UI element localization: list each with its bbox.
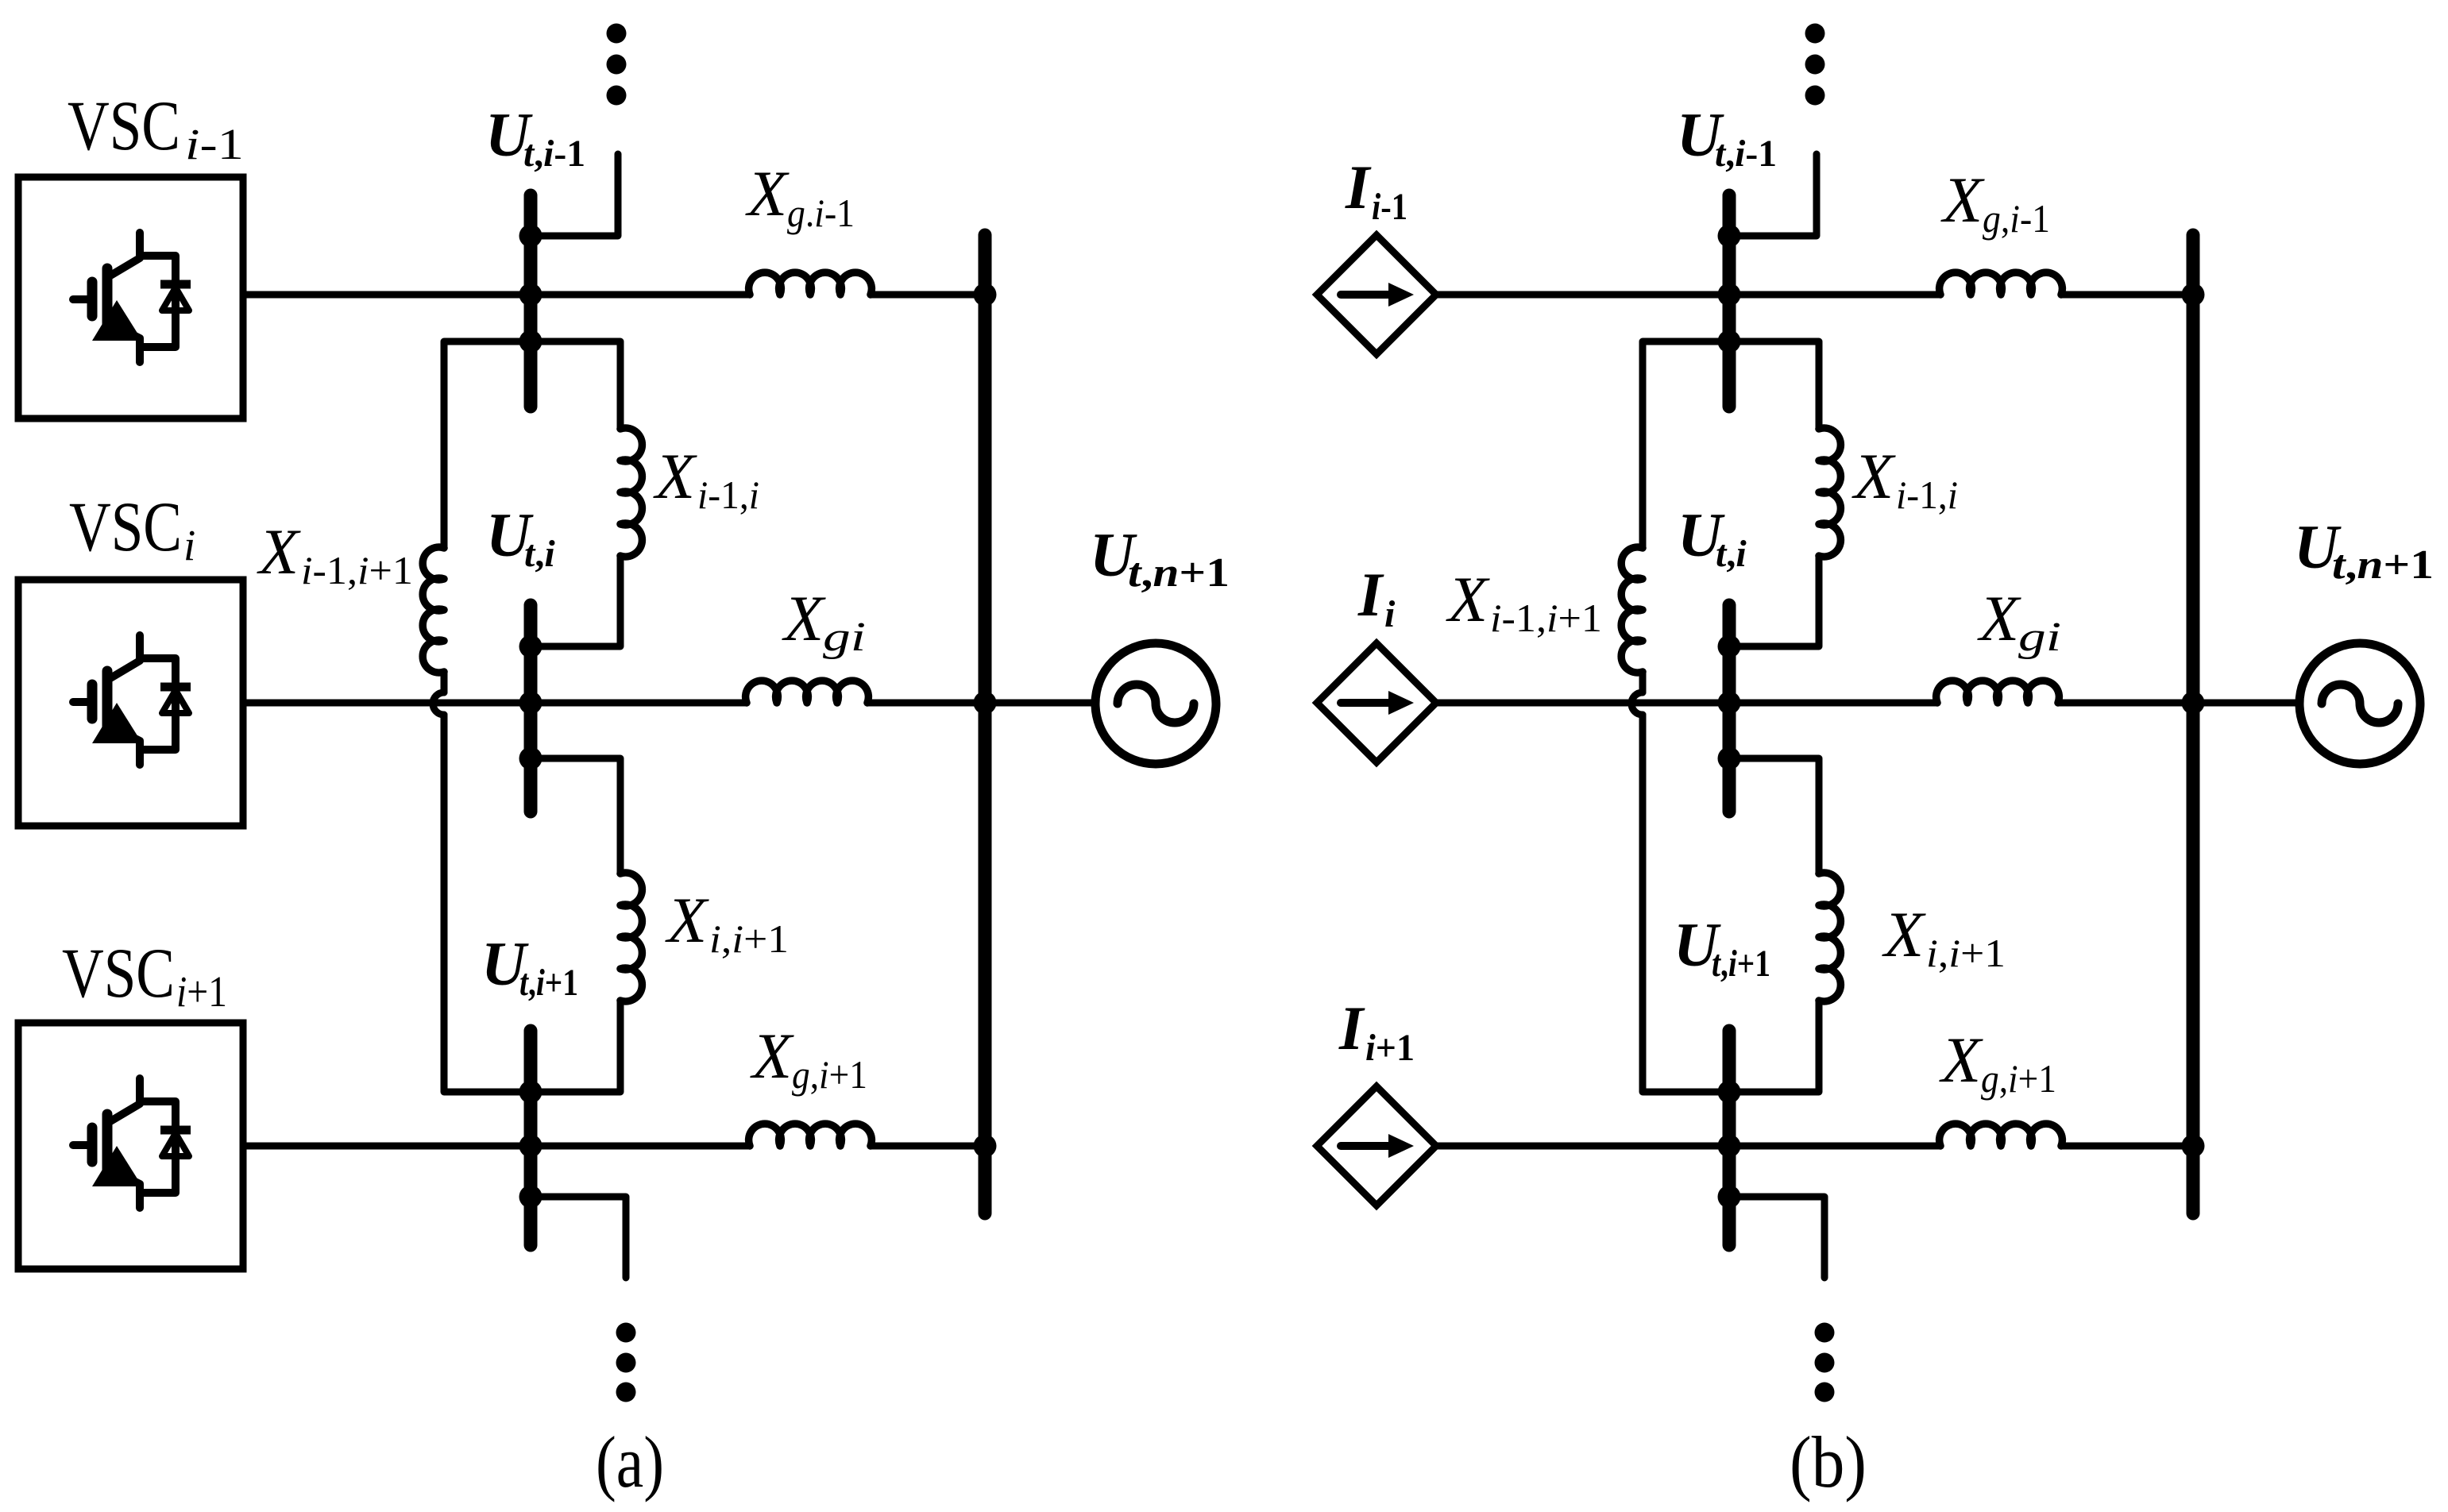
wire inductor to main bus (b) row1 [2061, 291, 2193, 299]
inductor X_g.i-1 (a) [749, 272, 872, 295]
IGBT symbol Q2 inside VSC box i [73, 635, 191, 765]
junction node on U_t,i-1 bus (a) #2 [519, 283, 542, 307]
wire VSC3 output to bus (a) row3 [243, 1143, 750, 1150]
busbar U_t,i (b) [1723, 605, 1736, 812]
svg-text:t,i: t,i [524, 533, 555, 575]
svg-text:VSC: VSC [69, 488, 182, 566]
junction node on U_t,i-1 bus (b) #2 [1718, 283, 1741, 307]
wire X_i-1,i to bus2 (b) [1729, 556, 1819, 646]
svg-text:t,n+1: t,n+1 [1128, 550, 1230, 596]
wire current source to bus (b) row1 [1436, 291, 1940, 299]
VSC box i+1 [18, 1023, 243, 1269]
wire bus2 to X_i,i+1 branch (b) [1729, 758, 1819, 874]
svg-text:gi: gi [823, 615, 866, 660]
inductor X_i,i+1 (a) [620, 873, 642, 1001]
svg-text:VSC: VSC [68, 87, 180, 165]
junction node on U_t,i bus (a) #3 [519, 747, 542, 770]
inductor X_i-1,i (a) [620, 428, 642, 557]
svg-text:t,i-1: t,i-1 [1715, 133, 1777, 175]
current source I_i-1 diamond [1317, 235, 1436, 354]
junction node main bus (b) row1 [2182, 283, 2205, 307]
svg-text:(a): (a) [596, 1421, 664, 1502]
wire VSC2 output to bus (a) row2 [243, 700, 747, 707]
svg-text:t,i+1: t,i+1 [1712, 943, 1770, 985]
svg-text:i: i [1384, 593, 1396, 635]
junction node main bus (a) row1 [974, 283, 997, 307]
wire X_i-1,i+1 to bus3 (b) [1643, 715, 1729, 1092]
IGBT symbol Q3 inside VSC box i+1 [73, 1078, 191, 1208]
wire X_i,i+1 to bus3 (a) [531, 1001, 620, 1092]
svg-text:gi: gi [2018, 615, 2061, 660]
junction node on U_t,i+1 bus (b) #2 [1718, 1135, 1741, 1158]
svg-text:i: i [183, 521, 195, 569]
inductor X_i-1,i+1 (a) [423, 547, 444, 673]
junction node main bus (a) row3 [974, 1135, 997, 1158]
svg-text:X: X [257, 515, 301, 588]
svg-text:i-1,i: i-1,i [1896, 472, 1958, 517]
IGBT symbol Q1 inside VSC box i-1 [73, 233, 191, 362]
ellipsis dot top (b) #2 [1805, 55, 1825, 75]
svg-text:X: X [745, 157, 790, 229]
svg-text:i+1: i+1 [1365, 1027, 1415, 1069]
ellipsis dot top (a) #2 [607, 55, 627, 75]
current source I_i-1 arrow [1341, 291, 1390, 299]
continuation stub down from bus 3 (b) [1729, 1197, 1824, 1278]
svg-text:g,i+1: g,i+1 [792, 1052, 867, 1097]
current source I_i+1 arrow [1341, 1142, 1390, 1150]
wire VSC1 output to bus (a) row1 [243, 291, 750, 299]
junction node on U_t,i+1 bus (a) #3 [519, 1186, 542, 1209]
wire inductor to main bus (a) row3 [871, 1143, 985, 1150]
svg-text:X: X [665, 884, 709, 956]
svg-text:VSC: VSC [62, 935, 175, 1012]
AC source sine wave (b) [2322, 685, 2398, 723]
wire bus1 to X_i-1,i branch (a) [531, 341, 620, 429]
ellipsis dot top (a) #3 [607, 86, 627, 106]
svg-text:X: X [1939, 1024, 1983, 1096]
busbar U_t,i+1 (a) [524, 1031, 538, 1245]
continuation stub up from bus 1 (a) [531, 154, 618, 236]
main grid busbar (a) [979, 235, 992, 1213]
junction node on U_t,i bus (a) #2 [519, 692, 542, 715]
junction node on U_t,i-1 bus (b) #1 [1718, 225, 1741, 248]
ellipsis dot bottom (b) #2 [1815, 1353, 1835, 1373]
ellipsis dot bottom (b) #3 [1815, 1383, 1835, 1402]
continuation stub down from bus 3 (a) [531, 1197, 626, 1278]
junction node on U_t,i bus (a) #1 [519, 635, 542, 658]
svg-text:t,n+1: t,n+1 [2332, 542, 2434, 588]
busbar U_t,i (a) [524, 605, 538, 812]
svg-text:i-1: i-1 [185, 120, 244, 168]
svg-text:i-1,i: i-1,i [697, 472, 759, 517]
junction node on U_t,i-1 bus (b) #3 [1718, 330, 1741, 353]
svg-text:g,i+1: g,i+1 [1981, 1056, 2056, 1101]
ellipsis dot top (a) #1 [607, 24, 627, 44]
VSC box i-1 [18, 177, 243, 418]
wire X_i-1,i+1 to bus3 (a) [444, 715, 531, 1092]
junction node on U_t,i bus (b) #2 [1718, 692, 1741, 715]
wire inductor to main bus (b) row2 [2058, 700, 2299, 707]
inductor X_i-1,i+1 (b) [1621, 547, 1643, 673]
current source I_i+1 diamond [1317, 1086, 1436, 1205]
junction node on U_t,i-1 bus (a) #3 [519, 330, 542, 353]
junction node on U_t,i+1 bus (b) #3 [1718, 1186, 1741, 1209]
wire bus2 to X_i,i+1 branch (a) [531, 758, 620, 874]
ellipsis dot bottom (a) #1 [616, 1323, 636, 1343]
AC source sine wave (a) [1118, 685, 1194, 723]
junction node main bus (b) row3 [2182, 1135, 2205, 1158]
AC source U_t,n+1 circle (a) [1095, 643, 1216, 764]
wire hop over row2 (b) [1631, 692, 1643, 715]
wire inductor to main bus (a) row1 [871, 291, 985, 299]
ellipsis dot bottom (a) #3 [616, 1383, 636, 1402]
svg-text:t,i+1: t,i+1 [519, 962, 578, 1004]
wire hop over row2 (a) [433, 692, 444, 715]
current source I_i diamond [1317, 643, 1436, 762]
svg-text:X: X [653, 440, 697, 512]
wire inductor to main bus (b) row3 [2061, 1143, 2193, 1150]
wire bus1 to X_i-1,i+1 branch (b) [1643, 341, 1729, 548]
inductor X_gi (b) [1936, 681, 2060, 703]
wire inductor to main bus (a) row2 [867, 700, 1095, 707]
svg-text:X: X [1882, 898, 1926, 970]
svg-text:X: X [782, 582, 826, 654]
junction node main bus (a) row2 [974, 692, 997, 715]
svg-text:X: X [750, 1020, 794, 1092]
busbar U_t,i-1 (a) [524, 195, 538, 407]
svg-text:i-1: i-1 [1372, 186, 1407, 228]
junction node on U_t,i bus (b) #1 [1718, 635, 1741, 658]
VSC box i [18, 580, 243, 826]
wire current source to bus (b) row3 [1436, 1143, 1940, 1150]
ellipsis dot top (b) #1 [1805, 24, 1825, 44]
inductor X_g,i+1 (b) [1940, 1124, 2063, 1146]
junction node on U_t,i-1 bus (a) #1 [519, 225, 542, 248]
svg-text:I: I [1345, 152, 1372, 222]
wire X_i-1,i+1 down to hop (a) [441, 672, 448, 692]
svg-text:g.i-1: g.i-1 [787, 191, 855, 235]
svg-text:X: X [1446, 563, 1490, 635]
svg-text:i,i+1: i,i+1 [709, 916, 789, 961]
svg-text:t,i-1: t,i-1 [523, 133, 585, 175]
inductor X_i-1,i (b) [1819, 428, 1840, 557]
svg-text:g,i-1: g,i-1 [1983, 196, 2050, 241]
svg-text:i-1,i+1: i-1,i+1 [1490, 596, 1602, 640]
wire X_i-1,i+1 down to hop (b) [1639, 672, 1647, 692]
junction node main bus (b) row2 [2182, 692, 2205, 715]
junction node on U_t,i+1 bus (b) #1 [1718, 1081, 1741, 1104]
wire X_i,i+1 to bus3 (b) [1729, 1001, 1819, 1092]
busbar U_t,i+1 (b) [1723, 1031, 1736, 1245]
svg-text:t,i: t,i [1716, 533, 1747, 575]
inductor X_g,i-1 (b) [1940, 272, 2063, 295]
svg-text:I: I [1338, 993, 1365, 1063]
current source I_i arrow [1341, 699, 1390, 707]
main grid busbar (b) [2187, 235, 2200, 1213]
junction node on U_t,i+1 bus (a) #2 [519, 1135, 542, 1158]
wire bus1 to X_i-1,i+1 branch (a) [444, 341, 531, 548]
svg-text:X: X [1977, 582, 2021, 654]
junction node on U_t,i bus (b) #3 [1718, 747, 1741, 770]
wire current source to bus (b) row2 [1436, 700, 1937, 707]
continuation stub up from bus 1 (b) [1729, 154, 1817, 236]
wire X_i-1,i to bus2 (a) [531, 556, 620, 646]
svg-text:i-1,i+1: i-1,i+1 [301, 548, 413, 592]
busbar U_t,i-1 (b) [1723, 195, 1736, 407]
svg-text:X: X [1940, 164, 1985, 236]
wire bus1 to X_i-1,i branch (b) [1729, 341, 1819, 429]
svg-text:X: X [1851, 440, 1896, 512]
AC source U_t,n+1 circle (b) [2299, 643, 2420, 764]
inductor X_i,i+1 (b) [1819, 873, 1840, 1001]
svg-text:i+1: i+1 [176, 967, 227, 1016]
svg-text:i,i+1: i,i+1 [1926, 931, 2006, 975]
svg-text:I: I [1357, 560, 1384, 629]
ellipsis dot bottom (b) #1 [1815, 1323, 1835, 1343]
inductor X_g,i+1 (a) [749, 1124, 872, 1146]
svg-text:(b): (b) [1790, 1421, 1867, 1502]
inductor X_gi (a) [746, 681, 869, 703]
junction node on U_t,i+1 bus (a) #1 [519, 1081, 542, 1104]
ellipsis dot top (b) #3 [1805, 86, 1825, 106]
ellipsis dot bottom (a) #2 [616, 1353, 636, 1373]
